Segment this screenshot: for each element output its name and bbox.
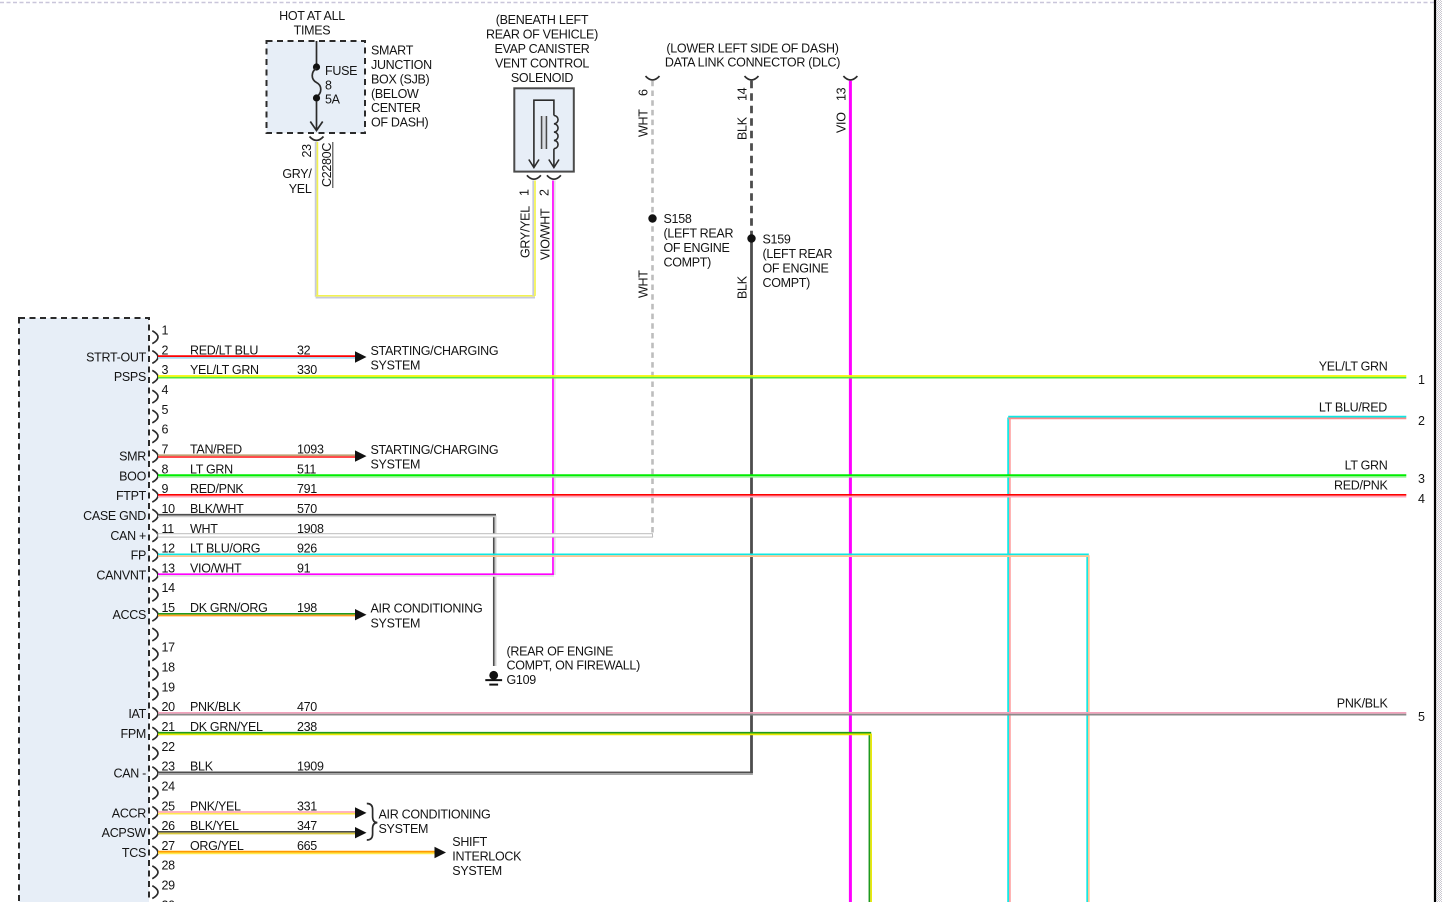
svg-text:INTERLOCK: INTERLOCK xyxy=(452,850,522,864)
wire pin 8 LT GRN xyxy=(158,475,1406,477)
svg-text:S158: S158 xyxy=(664,212,692,226)
wire GRY/YEL vertical to solenoid pin 1 xyxy=(533,181,535,296)
svg-text:CASE GND: CASE GND xyxy=(83,509,146,523)
wire VIO/WHT vertical from solenoid pin 2 xyxy=(553,181,555,576)
svg-text:5A: 5A xyxy=(325,93,341,107)
wire pin 2 RED/LT BLU xyxy=(158,356,355,358)
PCM pin 19 xyxy=(152,688,158,701)
svg-text:SYSTEM: SYSTEM xyxy=(379,822,429,836)
svg-text:GRY/: GRY/ xyxy=(282,167,312,181)
PCM pin 13 xyxy=(152,569,158,582)
svg-text:791: 791 xyxy=(297,482,317,496)
svg-text:G109: G109 xyxy=(507,673,537,687)
svg-text:BLK: BLK xyxy=(190,760,214,774)
svg-text:4: 4 xyxy=(1418,492,1425,506)
svg-text:BLK: BLK xyxy=(735,116,749,140)
PCM pin 9 xyxy=(152,489,158,502)
wire DK GRN/YEL vertical xyxy=(869,734,871,902)
svg-text:(LEFT REAR: (LEFT REAR xyxy=(664,227,734,241)
svg-text:AIR CONDITIONING: AIR CONDITIONING xyxy=(379,807,491,821)
wire BLK/WHT vertical xyxy=(494,516,496,666)
wire pin 20 PNK/BLK xyxy=(158,713,1406,715)
svg-text:1: 1 xyxy=(1418,373,1425,387)
svg-text:(BELOW: (BELOW xyxy=(371,87,419,101)
svg-text:9: 9 xyxy=(162,482,169,496)
wire WHT dashed (DLC pin6 to S158 to pin11 row) xyxy=(651,81,654,537)
PCM pin 29 xyxy=(152,886,158,899)
svg-text:CENTER: CENTER xyxy=(371,101,421,115)
svg-text:OF ENGINE: OF ENGINE xyxy=(664,241,730,255)
PCM pin 25 xyxy=(152,807,158,820)
svg-text:24: 24 xyxy=(162,779,176,793)
svg-text:BOX (SJB): BOX (SJB) xyxy=(371,72,430,86)
svg-text:COMPT): COMPT) xyxy=(664,256,712,270)
PCM pin 1 xyxy=(152,331,158,344)
svg-text:(REAR OF ENGINE: (REAR OF ENGINE xyxy=(507,644,614,658)
svg-text:30: 30 xyxy=(162,898,176,902)
svg-text:YEL: YEL xyxy=(289,182,312,196)
svg-text:OF ENGINE: OF ENGINE xyxy=(763,262,829,276)
svg-text:5: 5 xyxy=(162,403,169,417)
splice S158 xyxy=(648,214,656,222)
svg-text:91: 91 xyxy=(297,561,311,575)
svg-text:2: 2 xyxy=(538,189,552,196)
DLC pin 6 connector arc xyxy=(646,76,660,80)
ground G109 xyxy=(485,671,502,685)
svg-text:VIO/WHT: VIO/WHT xyxy=(539,208,553,260)
solenoid pin 1 connector arc xyxy=(527,175,541,179)
arrow to air conditioning (pin 15) xyxy=(355,609,367,620)
svg-text:SYSTEM: SYSTEM xyxy=(371,359,421,373)
wire pin 11 WHT xyxy=(158,534,653,537)
svg-text:WHT: WHT xyxy=(636,109,650,137)
svg-text:SYSTEM: SYSTEM xyxy=(452,864,502,878)
svg-text:SOLENOID: SOLENOID xyxy=(511,71,573,85)
wire LT BLU/RED vertical xyxy=(1008,418,1010,903)
PCM pin 15 xyxy=(152,608,158,621)
wire pin 12 LT BLU/ORG xyxy=(158,554,1089,556)
connector C2280C arc xyxy=(310,137,324,141)
svg-text:OF DASH): OF DASH) xyxy=(371,116,428,130)
wire pin 21 DK GRN/YEL xyxy=(158,733,871,735)
PCM pin 30 xyxy=(152,906,158,907)
PCM pin 23 xyxy=(152,767,158,780)
PCM pin 8 xyxy=(152,470,158,483)
svg-text:S159: S159 xyxy=(763,233,791,247)
svg-text:FPM: FPM xyxy=(121,727,147,741)
wire GRY/YEL horizontal xyxy=(316,296,535,298)
wire pin 25 PNK/YEL xyxy=(158,812,355,814)
svg-text:SMR: SMR xyxy=(119,450,146,464)
svg-text:8: 8 xyxy=(325,78,332,92)
wire VIO (DLC pin13 down) xyxy=(849,81,852,902)
PCM pin 10 xyxy=(152,509,158,522)
svg-text:LT GRN: LT GRN xyxy=(1345,459,1388,473)
svg-text:BLK: BLK xyxy=(735,275,749,299)
PCM pin 5 xyxy=(152,410,158,423)
wire pin 27 ORG/YEL xyxy=(158,852,435,854)
svg-text:RED/PNK: RED/PNK xyxy=(190,482,244,496)
svg-text:FUSE: FUSE xyxy=(325,64,357,78)
svg-text:PSPS: PSPS xyxy=(114,370,146,384)
label EVAP CANISTER VENT CONTROL SOLENOID xyxy=(486,13,598,85)
svg-text:14: 14 xyxy=(735,87,749,101)
PCM pin 26 xyxy=(152,826,158,839)
svg-text:COMPT): COMPT) xyxy=(763,276,811,290)
svg-text:511: 511 xyxy=(297,462,316,476)
svg-text:ACPSW: ACPSW xyxy=(102,826,147,840)
svg-text:VIO/WHT: VIO/WHT xyxy=(190,561,242,575)
svg-text:TIMES: TIMES xyxy=(294,24,331,38)
PCM pin 11 xyxy=(152,529,158,542)
svg-text:AIR CONDITIONING: AIR CONDITIONING xyxy=(371,602,483,616)
svg-text:VENT CONTROL: VENT CONTROL xyxy=(495,57,589,71)
svg-text:STARTING/CHARGING: STARTING/CHARGING xyxy=(371,344,499,358)
top page border (dashed) xyxy=(0,2,1442,4)
svg-text:RED/PNK: RED/PNK xyxy=(1334,478,1388,492)
PCM pin 24 xyxy=(152,787,158,800)
svg-text:14: 14 xyxy=(162,581,176,595)
brace for pins 25/26 xyxy=(367,804,378,841)
svg-text:SYSTEM: SYSTEM xyxy=(371,458,421,472)
arrow to air conditioning (pin 25) xyxy=(355,807,367,818)
svg-text:REAR OF VEHICLE): REAR OF VEHICLE) xyxy=(486,28,598,42)
label SMART JUNCTION BOX xyxy=(371,44,432,130)
wire pin 26 BLK/YEL xyxy=(158,832,355,834)
svg-text:PNK/BLK: PNK/BLK xyxy=(1337,697,1389,711)
svg-text:LT GRN: LT GRN xyxy=(190,462,233,476)
PCM connector box xyxy=(19,318,149,907)
PCM pin 12 xyxy=(152,549,158,562)
svg-text:SMART: SMART xyxy=(371,44,414,58)
svg-text:28: 28 xyxy=(162,859,176,873)
svg-text:GRY/YEL: GRY/YEL xyxy=(519,206,533,258)
wire pin 10 BLK/WHT xyxy=(158,515,496,517)
svg-text:YEL/LT GRN: YEL/LT GRN xyxy=(190,363,259,377)
splice S159 xyxy=(747,234,755,242)
svg-text:3: 3 xyxy=(1418,472,1425,486)
PCM pin 22 xyxy=(152,747,158,760)
solenoid pin 2 connector arc xyxy=(547,175,561,179)
svg-text:17: 17 xyxy=(162,641,176,655)
svg-text:YEL/LT GRN: YEL/LT GRN xyxy=(1319,360,1388,374)
svg-text:LT BLU/RED: LT BLU/RED xyxy=(1319,401,1387,415)
arrow to starting/charging (pin 7) xyxy=(355,450,367,461)
svg-text:ACCS: ACCS xyxy=(112,608,146,622)
PCM pin 17 xyxy=(152,648,158,661)
svg-text:6: 6 xyxy=(636,89,650,96)
svg-text:3: 3 xyxy=(162,363,169,377)
wire pin 3 YEL/LT GRN xyxy=(158,376,1406,378)
svg-text:22: 22 xyxy=(162,740,176,754)
svg-text:STRT-OUT: STRT-OUT xyxy=(86,350,147,364)
PCM pin 7 xyxy=(152,450,158,463)
svg-text:330: 330 xyxy=(297,363,317,377)
arrow to starting/charging (pin 2) xyxy=(355,351,367,362)
svg-text:CAN -: CAN - xyxy=(113,767,146,781)
DLC pin 13 connector arc xyxy=(843,76,857,80)
svg-text:LT BLU/ORG: LT BLU/ORG xyxy=(190,542,260,556)
svg-text:1: 1 xyxy=(162,324,169,338)
svg-text:5: 5 xyxy=(1418,710,1425,724)
wire pin 9 RED/PNK xyxy=(158,495,1406,497)
wire LT BLU/RED horizontal xyxy=(1008,417,1406,419)
svg-text:FP: FP xyxy=(131,549,146,563)
PCM pin 20 xyxy=(152,707,158,720)
svg-text:23: 23 xyxy=(162,760,176,774)
svg-text:29: 29 xyxy=(162,879,176,893)
solenoid internal symbol xyxy=(529,100,559,167)
svg-text:DATA LINK CONNECTOR (DLC): DATA LINK CONNECTOR (DLC) xyxy=(665,56,840,70)
PCM pin 16 xyxy=(152,628,158,641)
svg-text:JUNCTION: JUNCTION xyxy=(371,58,432,72)
svg-text:IAT: IAT xyxy=(128,707,146,721)
PCM pin 4 xyxy=(152,390,158,403)
svg-text:EVAP CANISTER: EVAP CANISTER xyxy=(495,42,590,56)
svg-text:4: 4 xyxy=(162,383,169,397)
smart junction box SJB xyxy=(267,41,366,133)
svg-text:COMPT, ON FIREWALL): COMPT, ON FIREWALL) xyxy=(507,659,641,673)
PCM pin 21 xyxy=(152,727,158,740)
right page border xyxy=(1436,0,1442,902)
svg-text:BOO: BOO xyxy=(119,469,146,483)
svg-text:FTPT: FTPT xyxy=(116,489,147,503)
solenoid box xyxy=(514,88,574,171)
svg-text:6: 6 xyxy=(162,423,169,437)
wire pin 7 TAN/RED xyxy=(158,455,355,457)
svg-text:C2280C: C2280C xyxy=(320,143,334,187)
PCM pin 3 xyxy=(152,370,158,383)
svg-text:1909: 1909 xyxy=(297,760,324,774)
svg-text:(LEFT REAR: (LEFT REAR xyxy=(763,247,833,261)
DLC pin 14 connector arc xyxy=(745,76,759,80)
svg-text:8: 8 xyxy=(162,462,169,476)
svg-text:18: 18 xyxy=(162,661,176,675)
svg-text:HOT AT ALL: HOT AT ALL xyxy=(279,9,345,23)
fuse F8 5A xyxy=(310,41,322,131)
arrow to shift interlock (pin 27) xyxy=(435,847,447,858)
svg-text:1: 1 xyxy=(518,189,532,196)
svg-text:ACCR: ACCR xyxy=(112,806,146,820)
wire LT BLU/ORG vertical xyxy=(1087,555,1089,902)
svg-text:SYSTEM: SYSTEM xyxy=(371,616,421,630)
svg-text:12: 12 xyxy=(162,542,176,556)
wire pin 15 DK GRN/ORG xyxy=(158,614,355,616)
PCM pin 27 xyxy=(152,846,158,859)
wire BLK solid (S159 to pin23 row) xyxy=(750,239,753,774)
PCM pin 2 xyxy=(152,351,158,364)
svg-text:STARTING/CHARGING: STARTING/CHARGING xyxy=(371,443,499,457)
svg-text:WHT: WHT xyxy=(636,270,650,298)
PCM pin 6 xyxy=(152,430,158,443)
wire pin 23 BLK xyxy=(158,772,753,774)
wire GRY/YEL vertical from SJB xyxy=(316,142,318,297)
PCM pin 18 xyxy=(152,668,158,681)
wire pin 13 VIO/WHT xyxy=(158,574,554,576)
svg-text:13: 13 xyxy=(834,87,848,101)
svg-text:2: 2 xyxy=(1418,414,1425,428)
wire BLK dashed (DLC pin14 to S159) xyxy=(750,81,753,239)
svg-text:23: 23 xyxy=(300,144,314,158)
svg-text:CANVNT: CANVNT xyxy=(96,568,146,582)
svg-text:(LOWER LEFT SIDE OF DASH): (LOWER LEFT SIDE OF DASH) xyxy=(666,42,838,56)
svg-text:13: 13 xyxy=(162,561,176,575)
PCM pin 28 xyxy=(152,866,158,879)
svg-text:(BENEATH LEFT: (BENEATH LEFT xyxy=(496,13,589,27)
svg-text:SHIFT: SHIFT xyxy=(452,835,487,849)
svg-text:VIO: VIO xyxy=(834,112,848,133)
svg-text:CAN +: CAN + xyxy=(110,529,146,543)
svg-text:926: 926 xyxy=(297,542,317,556)
PCM pin 14 xyxy=(152,588,158,601)
svg-text:19: 19 xyxy=(162,680,176,694)
arrow to air conditioning (pin 26) xyxy=(355,827,367,838)
svg-text:TCS: TCS xyxy=(122,846,146,860)
